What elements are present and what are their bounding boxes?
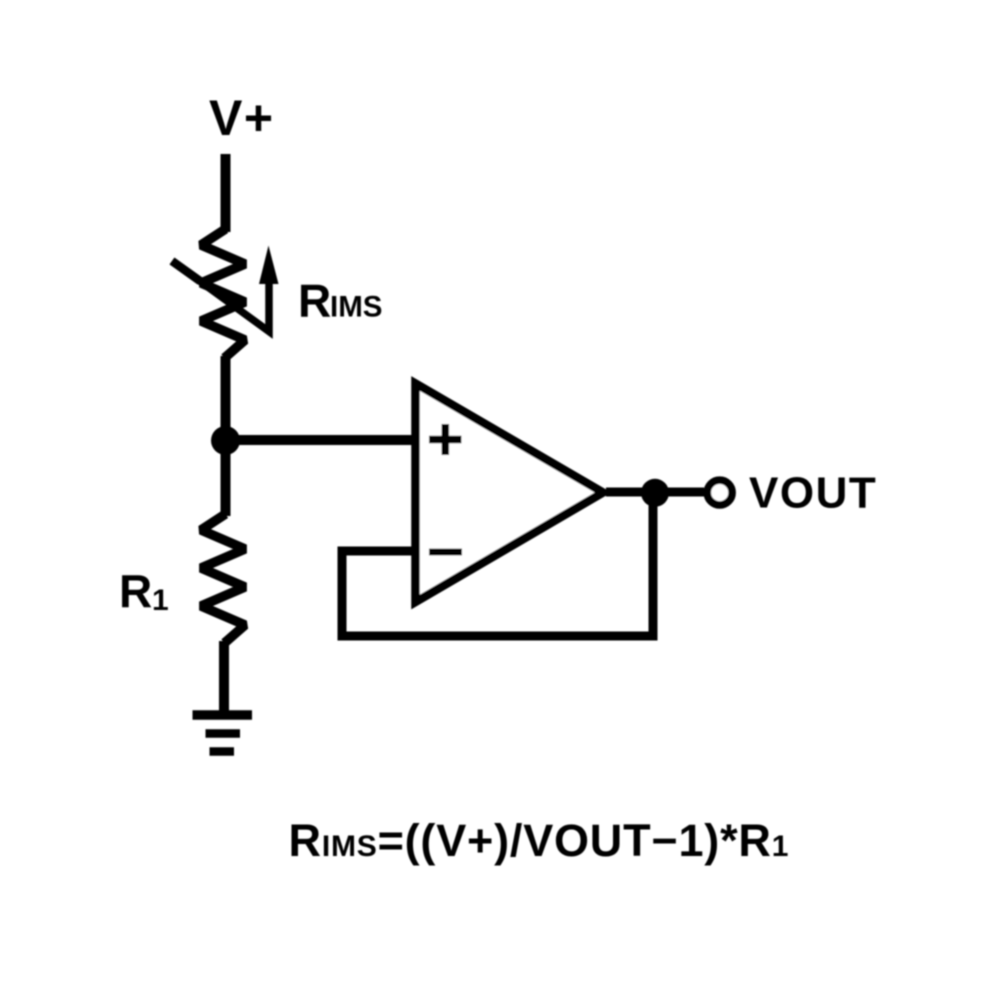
svg-text:IMS: IMS xyxy=(330,291,382,324)
wire RIMS to node A xyxy=(221,356,231,440)
feedback wire xyxy=(342,496,653,636)
wire node A to R1 xyxy=(221,441,231,516)
svg-text:R: R xyxy=(298,275,331,327)
svg-text:RIMS=((V+)/VOUT−1)*R1: RIMS=((V+)/VOUT−1)*R1 xyxy=(289,815,790,866)
svg-text:R: R xyxy=(119,565,152,617)
node A junction dot xyxy=(211,426,240,455)
wire V+ to RIMS xyxy=(221,154,231,232)
resistor R1 (zigzag) xyxy=(201,514,245,643)
svg-text:V+: V+ xyxy=(209,90,275,146)
RIMS wiper arrow xyxy=(172,261,269,332)
output wire xyxy=(606,488,704,497)
output terminal circle xyxy=(707,480,732,505)
svg-text:VOUT: VOUT xyxy=(749,469,877,518)
wire node A to op-amp + input xyxy=(226,435,413,445)
op-amp U1 xyxy=(416,384,604,603)
wire R1 to ground xyxy=(219,641,229,715)
svg-text:1: 1 xyxy=(152,584,169,617)
op-amp + input sign xyxy=(429,424,462,455)
variable resistor RIMS (zigzag) xyxy=(201,229,245,358)
ground xyxy=(193,710,253,720)
output node dot xyxy=(641,479,669,507)
op-amp - input sign xyxy=(429,549,462,556)
